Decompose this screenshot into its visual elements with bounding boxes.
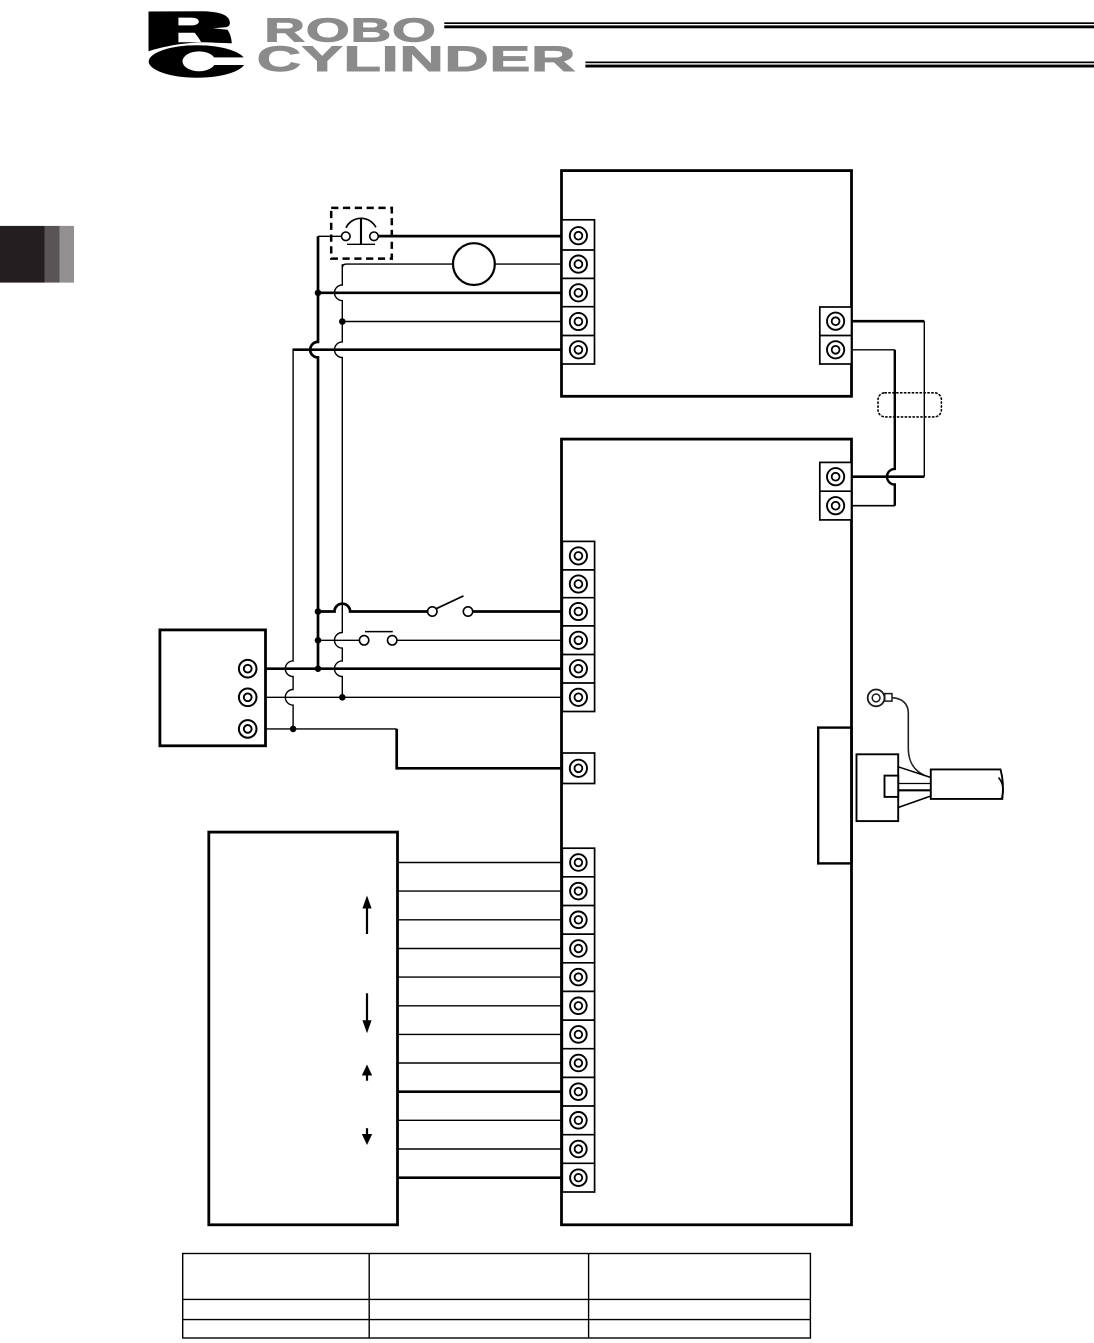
terminal TB6-10 [570, 1112, 587, 1129]
terminal TB6-12 [570, 1169, 587, 1186]
terminal TB1-2 [570, 256, 587, 273]
terminal TB1-5 [570, 341, 587, 358]
motor cable [931, 769, 1003, 799]
driver box U2 [562, 439, 852, 1225]
wire W6b S2 to TB4-3 [473, 610, 563, 613]
terminal TB1-3 [570, 284, 587, 301]
controller box U1 [562, 171, 852, 397]
terminal TB6-1 [570, 854, 587, 871]
wire W2 lamp to TB1-2 [495, 263, 563, 265]
wire PIO9 [398, 1090, 563, 1093]
terminal TB6-8 [570, 1055, 587, 1072]
wire PIO6 [398, 1005, 563, 1007]
terminal TB4-6 [570, 689, 587, 706]
logo RC mark C ellipse [148, 44, 247, 78]
arrow down short [366, 1128, 368, 1136]
terminal TB3-2 [827, 497, 844, 514]
svg-text:CYLINDER: CYLINDER [257, 39, 576, 78]
terminal TB6-3 [570, 912, 587, 929]
junction J4 [315, 637, 322, 644]
wire V1 (thick vertical bus) [310, 236, 318, 668]
wire PIO12 [398, 1176, 563, 1179]
header rule upper pair [444, 22, 1094, 28]
emergency stop switch S1 (dashed enclosure) [331, 208, 392, 259]
wire PIO5 [398, 976, 563, 978]
terminal TB4-1 [570, 547, 587, 564]
wire W2a lamp left to vertical V2 [342, 264, 453, 268]
terminal TB4-5 [570, 660, 587, 677]
wire WC2 PS1-PE to TB5-1 [397, 729, 563, 768]
wire PIO10 [398, 1119, 563, 1121]
junction J2 [339, 318, 346, 325]
terminal block TB5 (ground) [562, 753, 594, 784]
wire W1 S1 to TB1-1 [378, 235, 562, 238]
cable marker (dotted) on link wires [878, 393, 941, 417]
terminal TB1-4 [570, 313, 587, 330]
terminal block TB4 (driver control I/O) [562, 541, 594, 711]
terminal TB1-1 [570, 227, 587, 244]
wire V2 (lamp line vertical) [335, 264, 343, 697]
arrow up short [366, 1074, 368, 1081]
wire W7b S3 to TB4-4 [397, 639, 563, 641]
chapter tab [0, 226, 74, 283]
wire W4 to TB1-4 [342, 321, 562, 323]
switch S3 (stop, NC) [359, 632, 397, 645]
terminal TB6-7 [570, 1026, 587, 1043]
terminal PS1-N [239, 689, 257, 707]
logo RC mark black field with R [149, 11, 232, 51]
terminal TB6-5 [570, 969, 587, 986]
terminal TB4-2 [570, 575, 587, 592]
terminal TB6-9 [570, 1083, 587, 1100]
wire link1 TB2-1 to TB3-1 [852, 320, 925, 323]
wire link2 TB2-2 to TB3-2 [852, 349, 895, 351]
wire PIO7 [398, 1033, 563, 1035]
wire WC PS1-PE upper run [266, 728, 397, 730]
junction J3 [315, 608, 322, 615]
wire PIO4 [398, 948, 563, 950]
terminal TB2-2 [827, 341, 844, 358]
terminal block TB3 (driver link in) [820, 462, 852, 520]
terminal TB4-3 [570, 603, 587, 620]
PLC box U3 [209, 832, 398, 1225]
wire PIO1 [398, 862, 563, 864]
wire W6 with switch S2 to TB4-3 [318, 604, 428, 612]
terminal TB4-4 [570, 632, 587, 649]
wire WA PS1-L to TB4-5 [266, 667, 563, 670]
notes table [183, 1254, 811, 1339]
pilot lamp L1 [453, 243, 495, 285]
terminal TB2-1 [827, 313, 844, 330]
terminal TB6-2 [570, 883, 587, 900]
power supply box PS1 [160, 630, 266, 746]
ground ring lug [868, 690, 892, 707]
wire W3 to TB1-3 [318, 291, 563, 294]
terminal TB5-1 [570, 760, 587, 777]
junction J7 [290, 726, 297, 733]
wire PIO3 [398, 919, 563, 921]
terminal PS1-L [239, 660, 257, 678]
terminal block TB1 (controller power input) [562, 220, 595, 364]
wire PIO11 [398, 1148, 563, 1150]
motor connector panel rect [818, 728, 851, 864]
connector latch [885, 776, 899, 797]
wire W1a S1 left stub [318, 235, 342, 237]
terminal TB6-6 [570, 998, 587, 1015]
arrow down long [366, 993, 368, 1022]
junction J5 [315, 665, 322, 672]
wire PIO8 [398, 1062, 563, 1064]
terminal TB3-1 [827, 468, 844, 485]
wire PIO2 [398, 890, 563, 892]
junction J1 [315, 290, 322, 297]
junction J6 [339, 694, 346, 701]
terminal TB6-4 [570, 940, 587, 957]
ground wire [892, 698, 925, 776]
motor connector body [857, 754, 899, 821]
wire W5 to TB1-5 [293, 348, 562, 351]
arrow up long [366, 907, 368, 935]
terminal block TB2 (controller link out) [820, 307, 852, 364]
wire WB PS1-N to TB4-6 [266, 696, 563, 698]
header rule lower pair [585, 62, 1094, 68]
connector wires fan-out [898, 767, 931, 808]
terminal TB6-11 [570, 1141, 587, 1158]
wire W7 to switch S3 [318, 639, 359, 641]
wire V3 (left vertical from W5) [285, 349, 293, 729]
terminal block TB6 (driver PIO) [562, 848, 594, 1192]
terminal PS1-PE [239, 720, 257, 738]
switch S2 (start, NO) [428, 596, 473, 616]
